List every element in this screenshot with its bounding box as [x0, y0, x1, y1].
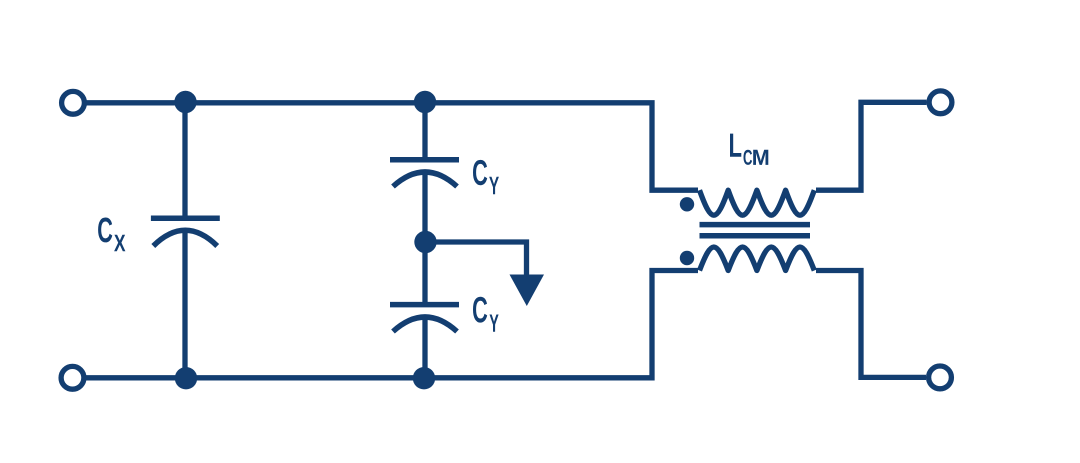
junction node bottom-left (C_X / bottom rail) — [175, 367, 197, 389]
label C_X — [98, 218, 112, 243]
junction node mid (C_Y1-C_Y2 / ground) — [414, 231, 436, 253]
junction node top-mid (C_Y1 / top rail) — [414, 91, 436, 113]
junction node bottom-mid (C_Y2 / bottom rail) — [413, 367, 435, 389]
ground arrow head — [510, 275, 545, 307]
terminal bottom-left — [61, 366, 84, 389]
inductor LCM top winding — [700, 190, 815, 215]
wire C_Y branch top — [422, 103, 427, 157]
label C_Y1 — [473, 160, 487, 185]
inductor LCM core — [700, 225, 811, 236]
capacitor C_X — [151, 218, 220, 246]
wire bottom-right — [816, 271, 926, 378]
terminal top-left — [62, 91, 85, 114]
wire bottom rail — [86, 271, 698, 378]
inductor LCM phase dot top — [680, 197, 694, 211]
junction node top-left (C_X / top rail) — [174, 91, 196, 113]
terminal top-right — [929, 91, 952, 114]
wire C_X branch lower — [182, 231, 187, 378]
wire C_Y mid — [422, 170, 427, 302]
label C_Y2 — [473, 297, 487, 323]
wire C_Y bottom — [422, 317, 427, 378]
wire C_X branch upper — [182, 103, 187, 216]
capacitor C_Y2 — [390, 305, 459, 332]
wire top rail — [87, 103, 699, 190]
terminal bottom-right — [929, 366, 952, 389]
inductor LCM bottom winding — [700, 247, 815, 270]
label L_CM — [730, 134, 741, 157]
capacitor C_Y1 — [390, 160, 459, 187]
inductor LCM phase dot bottom — [680, 251, 694, 265]
wire ground stub — [425, 242, 527, 276]
wire top-right — [816, 102, 927, 190]
